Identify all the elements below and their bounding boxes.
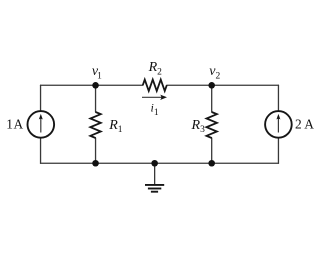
- wire R1 branch lower: [95, 138, 97, 163]
- wire R1 branch upper: [95, 85, 97, 112]
- svg-text:R2: R2: [148, 60, 163, 77]
- current source I2: [265, 111, 292, 138]
- wire ground stem: [154, 163, 156, 184]
- junction dot R3 bottom: [208, 160, 215, 167]
- resistor R1: [90, 112, 100, 138]
- node v2: [208, 82, 215, 89]
- wire R3 branch lower: [211, 138, 213, 163]
- svg-text:R3: R3: [191, 118, 206, 135]
- svg-text:2 A: 2 A: [295, 117, 314, 132]
- ground: [145, 185, 164, 192]
- wire R3 branch upper: [211, 85, 213, 112]
- junction dot ground: [151, 160, 158, 167]
- node v1: [92, 82, 99, 89]
- current source I1: [28, 111, 55, 138]
- wire right branch lower: [277, 138, 279, 163]
- wire bottom rail: [41, 162, 279, 164]
- svg-text:1A: 1A: [6, 117, 23, 132]
- wire left branch lower: [40, 138, 42, 163]
- svg-text:i1: i1: [151, 100, 159, 118]
- wire top rail right (R2 to v2 to right corner): [167, 84, 279, 86]
- svg-text:v1: v1: [92, 64, 102, 82]
- resistor R2: [143, 80, 167, 91]
- wire right branch upper: [277, 85, 279, 110]
- junction dot R1 bottom: [92, 160, 99, 167]
- current arrow i1: [142, 95, 167, 100]
- wire left branch upper: [40, 85, 42, 110]
- svg-text:R1: R1: [108, 118, 123, 135]
- resistor R3: [207, 112, 217, 138]
- wire top rail left (v1 to R2): [41, 84, 143, 86]
- svg-text:v2: v2: [209, 64, 220, 82]
